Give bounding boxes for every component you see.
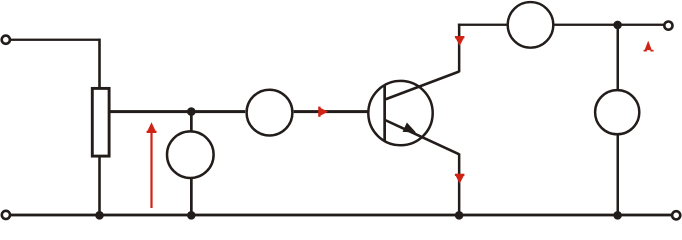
- wire M1 to transistor base: [294, 110, 385, 113]
- wire junction down to voltmeter V1: [190, 112, 193, 132]
- transistor Q1 emitter arrowhead: [403, 123, 417, 133]
- terminal OUT-: [672, 211, 680, 219]
- transistor Q1 collector diagonal: [385, 72, 459, 100]
- junction node bottom/emitter: [455, 211, 464, 220]
- junction node bottom/V1: [187, 211, 196, 220]
- wire collector vertical: [458, 24, 461, 73]
- transistor Q1 body: [368, 81, 432, 145]
- label A (red): [644, 41, 654, 52]
- voltmeter V1: [167, 131, 214, 178]
- junction node top/V2: [613, 21, 622, 30]
- current arrow I_E (red, down): [455, 174, 465, 184]
- terminal IN-: [2, 211, 10, 219]
- ammeter A1: [508, 2, 554, 48]
- wire left vertical to potentiometer: [98, 39, 101, 88]
- wire below potentiometer: [98, 156, 101, 216]
- transistor Q1 emitter diagonal: [385, 120, 459, 154]
- current arrow U_in (red, up, with tail): [147, 122, 157, 208]
- wire junction down to voltmeter V2: [617, 25, 620, 90]
- junction node wiper/V1: [187, 107, 196, 116]
- junction node bottom/pot: [95, 211, 104, 220]
- terminal IN+: [2, 36, 10, 44]
- wire emitter vertical: [458, 154, 461, 216]
- wire V2 to bottom rail: [617, 135, 620, 215]
- wire bottom rail: [10, 214, 672, 217]
- junction node bottom/V2: [613, 211, 622, 220]
- terminal OUT+: [664, 22, 672, 30]
- transistor Q1 base bar: [383, 85, 386, 142]
- wire top rail right of ammeter A1: [554, 24, 665, 26]
- current arrow I_C (red, down): [455, 36, 465, 46]
- voltmeter V2: [595, 90, 639, 134]
- potentiometer P1: [92, 88, 109, 156]
- current arrow I_B (red, right): [318, 107, 328, 117]
- wire top rail left of ammeter A1: [458, 24, 507, 26]
- ammeter M1: [247, 90, 293, 136]
- wire top-left horizontal: [10, 39, 101, 41]
- wire wiper tap to meter M1: [109, 110, 245, 113]
- wire V1 to bottom rail: [190, 178, 193, 215]
